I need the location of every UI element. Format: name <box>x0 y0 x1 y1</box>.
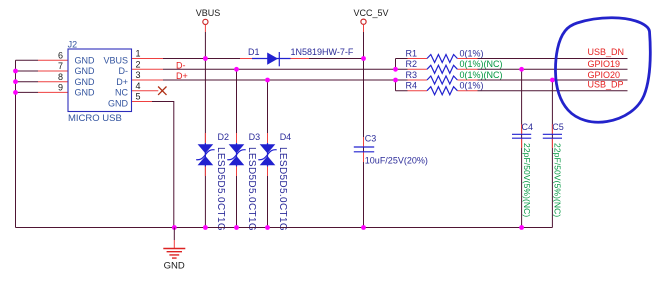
svg-text:D-: D- <box>119 66 129 76</box>
net label D- <box>176 61 186 71</box>
C4 value 22pF/50V(5%)(NC) vertical <box>522 143 532 217</box>
wire row3 D+ net <box>163 79 408 81</box>
junction C4 top on row2 <box>519 67 524 72</box>
J2 pins 1-3 red pin stubs <box>132 59 164 81</box>
R1 value 0(1%) <box>460 48 484 58</box>
svg-text:GND: GND <box>75 66 96 76</box>
svg-text:GND: GND <box>75 77 96 87</box>
J2 pins 6-9 red pin stubs <box>38 60 68 92</box>
wire row2 D- net <box>163 68 408 70</box>
wire ground rail <box>16 227 553 229</box>
wire row1 output to net label USB_DN <box>478 58 628 60</box>
hand-drawn highlight ellipse around net labels <box>555 18 650 122</box>
net label USB_DP <box>588 80 624 90</box>
wire row4 output to net label USB_DP <box>478 90 628 92</box>
junction rail at C3 <box>361 225 366 230</box>
svg-text:USB_DN: USB_DN <box>588 47 625 57</box>
net label GPIO20 <box>588 70 621 80</box>
D4 value LESD5D5.0CT1G vertical <box>277 147 288 231</box>
svg-text:GND: GND <box>164 260 185 271</box>
svg-text:LESD5D5.0CT1G: LESD5D5.0CT1G <box>215 147 226 231</box>
svg-text:1: 1 <box>135 49 140 59</box>
svg-text:0(1%)(NC): 0(1%)(NC) <box>460 70 503 80</box>
wire C5 vertical from row3 <box>551 80 553 228</box>
wire row1 VBUS net from pin1 to VCC junction <box>163 58 364 60</box>
svg-text:R4: R4 <box>406 81 418 91</box>
svg-text:VBUS: VBUS <box>196 8 221 18</box>
svg-text:GND: GND <box>75 56 96 66</box>
resistor R2 <box>408 65 478 73</box>
power symbol VCC_5V <box>353 8 388 32</box>
J2 part name MICRO USB <box>68 113 122 124</box>
svg-text:7: 7 <box>58 61 63 71</box>
wire D4 vertical <box>267 80 269 228</box>
svg-text:D+: D+ <box>116 77 128 87</box>
svg-text:USB_DP: USB_DP <box>588 80 624 90</box>
D3 value LESD5D5.0CT1G vertical <box>246 147 257 231</box>
wire bracket joining R1 and R2 inputs <box>396 59 408 91</box>
wire D3 vertical <box>236 69 238 227</box>
net label GPIO19 <box>588 59 621 69</box>
svg-text:D3: D3 <box>249 132 261 142</box>
J2 pin5 stub and wire to ground rail <box>132 102 174 228</box>
svg-text:4: 4 <box>135 81 140 91</box>
svg-text:1N5819HW-7-F: 1N5819HW-7-F <box>291 47 354 57</box>
R3 value 0(1%)(NC) <box>460 70 503 80</box>
J2 pin numbers 1-5 <box>135 49 140 102</box>
svg-text:D+: D+ <box>176 71 188 81</box>
no-connect X on pin4 <box>158 87 166 95</box>
R3 designator <box>406 70 418 80</box>
junction rail at D4 <box>265 225 270 230</box>
wire VCC_5V vertical down through C3 to ground rail <box>363 32 365 228</box>
wire row2 output to net label GPIO19 <box>478 68 628 70</box>
TVS diode D3 <box>227 143 245 167</box>
R2 designator <box>406 59 418 69</box>
resistor R3 <box>408 76 478 84</box>
junction dots on left bus <box>13 69 18 95</box>
svg-text:R1: R1 <box>406 48 418 58</box>
svg-text:0(1%): 0(1%) <box>460 81 484 91</box>
svg-text:0(1%): 0(1%) <box>460 48 484 58</box>
svg-text:R3: R3 <box>406 70 418 80</box>
svg-text:5: 5 <box>135 92 140 102</box>
wire left bus vertical with pin6-9 stubs <box>16 60 39 227</box>
wire row3 output to net label GPIO20 <box>478 79 628 81</box>
junction bracket on row2 <box>393 67 398 72</box>
D1 value label 1N5819HW-7-F <box>291 47 354 57</box>
C4 designator <box>522 122 534 132</box>
junction D3 top on row2 <box>234 67 239 72</box>
junction VBUS row1 <box>203 56 208 61</box>
resistor R4 <box>408 87 478 95</box>
C5 designator <box>552 122 564 132</box>
svg-text:NC: NC <box>115 88 128 98</box>
J2 pin4 NC stub <box>132 90 159 92</box>
svg-text:C4: C4 <box>522 122 534 132</box>
svg-text:GPIO20: GPIO20 <box>588 70 621 80</box>
J2 pin numbers 6-9 <box>58 51 63 93</box>
ground symbol <box>163 228 185 259</box>
svg-text:D4: D4 <box>280 132 292 142</box>
capacitor C3 <box>354 147 374 152</box>
C3 designator <box>365 133 377 143</box>
J2 right pin name labels <box>103 56 128 109</box>
svg-text:0(1%)(NC): 0(1%)(NC) <box>460 59 503 69</box>
svg-text:D1: D1 <box>248 47 260 57</box>
resistor R1 <box>408 55 478 63</box>
C5 value 22pF/50V(5%)(NC) vertical <box>553 143 563 217</box>
junction C5 top on row3 <box>550 78 555 83</box>
svg-text:GND: GND <box>108 98 129 108</box>
svg-text:LESD5D5.0CT1G: LESD5D5.0CT1G <box>246 147 257 231</box>
svg-text:J2: J2 <box>68 40 78 50</box>
svg-text:3: 3 <box>135 70 140 80</box>
svg-text:22pF/50V(5%)(NC): 22pF/50V(5%)(NC) <box>553 143 563 217</box>
wire VBUS vertical down to D2 and ground rail <box>204 32 206 228</box>
connector J2 body <box>68 49 132 112</box>
wire C4 vertical from row2 <box>521 69 523 227</box>
TVS diode D2 <box>196 143 214 167</box>
svg-text:D-: D- <box>176 61 186 71</box>
junction bracket on row3 <box>393 78 398 83</box>
junction rail at D3 <box>234 225 239 230</box>
R1 designator <box>406 48 418 58</box>
net label USB_DN <box>588 47 625 57</box>
TVS diode D4 <box>258 143 276 167</box>
R4 designator <box>406 81 418 91</box>
junction rail at GND tap <box>172 225 177 230</box>
svg-text:GPIO19: GPIO19 <box>588 59 621 69</box>
ground GND text <box>164 260 185 271</box>
R2 value 0(1%)(NC) <box>460 59 503 69</box>
svg-text:2: 2 <box>135 60 140 70</box>
svg-text:MICRO USB: MICRO USB <box>68 113 122 124</box>
capacitor C4 <box>512 134 531 138</box>
svg-text:VCC_5V: VCC_5V <box>353 8 388 18</box>
svg-text:GND: GND <box>75 88 96 98</box>
diode D1 <box>240 52 309 66</box>
svg-text:10uF/25V(20%): 10uF/25V(20%) <box>365 155 428 165</box>
junction VCC_5V row1 <box>361 56 366 61</box>
R4 value 0(1%) <box>460 81 484 91</box>
svg-text:22pF/50V(5%)(NC): 22pF/50V(5%)(NC) <box>522 143 532 217</box>
capacitor C5 <box>543 134 562 138</box>
svg-text:6: 6 <box>58 51 63 61</box>
D2 designator <box>218 132 230 142</box>
svg-text:8: 8 <box>58 72 63 82</box>
svg-text:LESD5D5.0CT1G: LESD5D5.0CT1G <box>277 147 288 231</box>
junction rail at C4 <box>519 225 524 230</box>
J2 left pin name labels GND <box>75 56 96 98</box>
svg-text:C3: C3 <box>365 133 377 143</box>
svg-text:D2: D2 <box>218 132 230 142</box>
svg-text:VBUS: VBUS <box>103 56 128 66</box>
D3 designator <box>249 132 261 142</box>
junction D4 top on row3 <box>265 78 270 83</box>
J2 designator label <box>68 40 78 50</box>
C3 value 10uF/25V(20%) <box>365 155 428 165</box>
svg-text:C5: C5 <box>552 122 564 132</box>
svg-text:R2: R2 <box>406 59 418 69</box>
net label D+ <box>176 71 188 81</box>
D1 designator label <box>248 47 260 57</box>
D2 value LESD5D5.0CT1G vertical <box>215 147 226 231</box>
svg-text:9: 9 <box>58 83 63 93</box>
power symbol VBUS <box>196 8 221 32</box>
D4 designator <box>280 132 292 142</box>
junction rail at D2 <box>203 225 208 230</box>
